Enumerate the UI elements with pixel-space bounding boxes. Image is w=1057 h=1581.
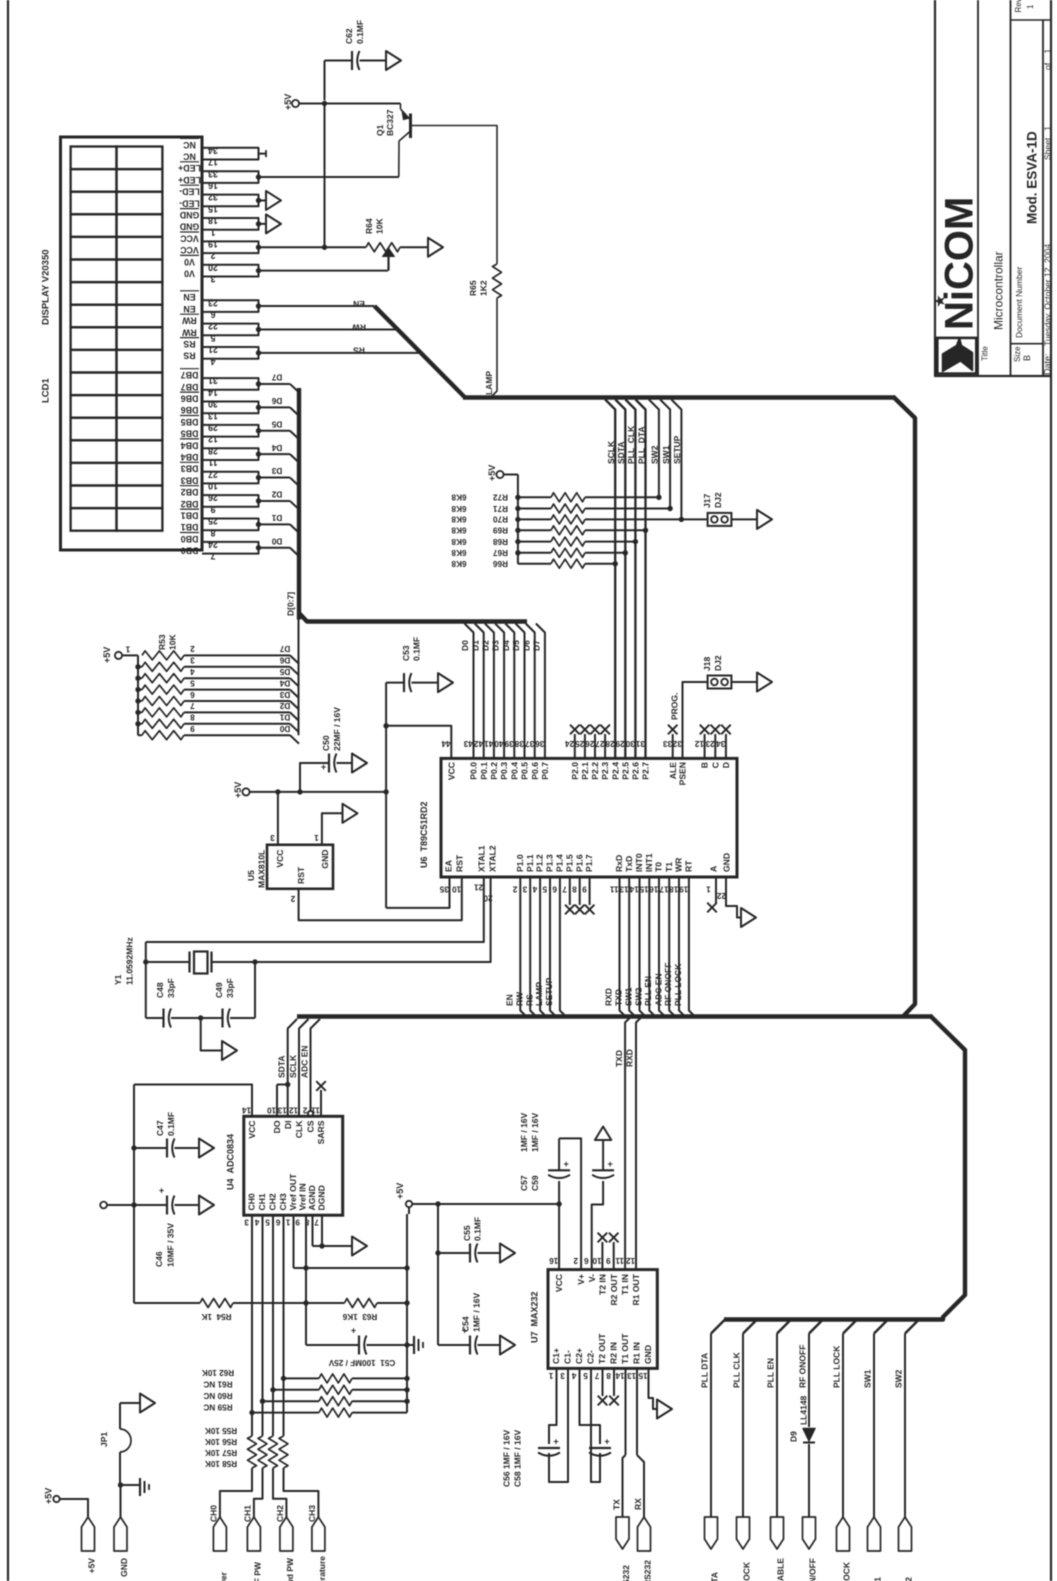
ground arrow U7 GND (657, 1400, 672, 1419)
svg-text:9: 9 (606, 1256, 611, 1265)
svg-text:6: 6 (552, 884, 557, 893)
resistor R64 10K (366, 243, 400, 252)
+5V analog vertical (408, 1207, 410, 1214)
wire C62 branch (325, 60, 353, 62)
svg-text:LED-: LED- (179, 187, 200, 197)
svg-text:SW2: SW2 (650, 445, 660, 464)
svg-text:6K8: 6K8 (451, 493, 466, 502)
capacitor C54 1MF/16V (438, 1344, 470, 1346)
svg-text:Power: Power (219, 1571, 229, 1581)
svg-text:R67: R67 (493, 548, 508, 557)
svg-text:CLK: CLK (294, 1120, 304, 1138)
svg-text:4: 4 (190, 667, 195, 676)
capacitor C46 10MF/35V (134, 1204, 167, 1206)
main signal bus horizontal lower (297, 1014, 932, 1018)
bus D[0:7] horizontal branch (299, 613, 527, 622)
svg-text:6K8: 6K8 (451, 526, 466, 535)
wire C51 to earth (367, 1344, 415, 1346)
svg-text:CH1: CH1 (257, 1193, 267, 1210)
svg-text:D1: D1 (271, 513, 282, 522)
svg-text:16: 16 (549, 1256, 559, 1265)
svg-text:Mod. ESVA-1D: Mod. ESVA-1D (1024, 131, 1039, 224)
wire R63 to +5V rail (377, 1302, 407, 1304)
svg-text:RXD: RXD (625, 1049, 635, 1067)
svg-text:11: 11 (615, 1256, 624, 1265)
svg-text:+5V: +5V (44, 1488, 54, 1504)
wire crystal caps to ground (201, 1018, 222, 1051)
wire U4 VCC to C47 rail (134, 1085, 252, 1117)
svg-text:V0: V0 (184, 257, 195, 267)
resistors R55-R58 10K (248, 1436, 257, 1468)
svg-text:11.0592MHz: 11.0592MHz (125, 937, 135, 985)
svg-text:PLL ENABLE: PLL ENABLE (776, 1558, 786, 1581)
svg-text:WR: WR (674, 857, 684, 872)
crystal Y1 11.0592MHz (145, 942, 147, 1018)
svg-text:RS: RS (524, 994, 534, 1006)
R53 pin 1 wire (122, 654, 138, 656)
svg-text:C1-: C1- (563, 1350, 573, 1364)
U6 B C D no-connect stubs (704, 734, 706, 758)
ground arrow U5 GND (343, 804, 358, 823)
svg-text:Date:: Date: (1043, 353, 1053, 375)
svg-text:R68: R68 (493, 537, 508, 546)
U5 RST pin 2 wire to U6 RST (299, 877, 462, 920)
U6 GND pin 22 wire (726, 877, 741, 918)
svg-text:P2.3: P2.3 (600, 762, 610, 780)
svg-text:6K8: 6K8 (451, 559, 466, 568)
svg-text:9: 9 (295, 1217, 300, 1226)
svg-text:7: 7 (190, 701, 195, 710)
wire R64 to ground (400, 246, 428, 248)
svg-text:26: 26 (585, 739, 595, 748)
svg-text:39: 39 (504, 739, 514, 748)
jumper J18 DJ2 (708, 676, 732, 689)
svg-text:Y1: Y1 (113, 974, 123, 985)
wire +5V to pull-up rail (503, 474, 518, 476)
svg-text:C47: C47 (155, 1120, 165, 1136)
svg-text:R72: R72 (493, 493, 508, 502)
resistor R65 1K2 (493, 264, 502, 298)
svg-text:D0: D0 (460, 640, 470, 651)
svg-text:C46: C46 (154, 1251, 164, 1267)
svg-text:U7 MAX232: U7 MAX232 (530, 1291, 540, 1343)
svg-text:VCC: VCC (275, 850, 285, 868)
svg-text:T1: T1 (664, 862, 674, 872)
svg-text:22: 22 (717, 891, 727, 900)
svg-text:P0.4: P0.4 (509, 762, 519, 780)
svg-text:LED-: LED- (179, 198, 200, 208)
U5 VCC pin 3 wire (277, 792, 279, 845)
wire +5V down to VCC net (324, 104, 326, 248)
ground arrow U6 GND (741, 908, 756, 927)
svg-text:EN: EN (183, 304, 195, 314)
wire net LED+ to Q1 collector (259, 176, 399, 178)
port flag CH0 (213, 1517, 226, 1551)
capacitor C51 100MF/25V (306, 1344, 359, 1346)
U7 T2IN R2OUT no-connect (601, 1242, 603, 1270)
bus D[0:7] thin continuation to R53 taps (298, 620, 300, 736)
wire J17 to ground (731, 518, 757, 520)
svg-text:5: 5 (190, 678, 195, 687)
svg-text:0.1MF: 0.1MF (473, 1217, 483, 1241)
svg-text:DB3: DB3 (181, 464, 199, 474)
svg-text:+5V: +5V (395, 1183, 405, 1199)
svg-text:1MF / 16V: 1MF / 16V (472, 1292, 482, 1332)
wire nets DB7-DB0 into data bus (259, 383, 291, 385)
LCD1 display cell grid (71, 147, 117, 170)
svg-text:SDTA: SDTA (616, 441, 626, 464)
svg-text:Vref IN: Vref IN (298, 1183, 308, 1210)
svg-text:43: 43 (463, 739, 473, 748)
svg-text:P1.6: P1.6 (574, 854, 584, 872)
svg-text:Document Number: Document Number (1014, 266, 1024, 338)
svg-text:9: 9 (210, 504, 215, 514)
wire C50 to ground (337, 762, 353, 764)
svg-text:0.1MF: 0.1MF (412, 637, 422, 661)
power +5V wire to U7 VCC (412, 1203, 559, 1205)
svg-text:Title: Title (980, 346, 989, 361)
resistor R54 1K (134, 1302, 200, 1304)
svg-text:5: 5 (265, 1217, 270, 1226)
svg-text:7: 7 (594, 1371, 599, 1380)
svg-text:14: 14 (242, 1105, 252, 1114)
wire U7 T1 OUT to TX (625, 1368, 627, 1455)
port flag TX (616, 1517, 629, 1549)
svg-text:D3: D3 (491, 640, 501, 651)
svg-text:PLL_CLK: PLL_CLK (626, 425, 636, 464)
svg-text:EA: EA (444, 860, 454, 872)
svg-text:R66: R66 (493, 559, 508, 568)
U4 SARS no-connect (320, 1090, 322, 1116)
svg-text:1: 1 (210, 227, 215, 237)
svg-text:PLL EN: PLL EN (766, 1358, 776, 1388)
svg-text:R58 10K: R58 10K (205, 1459, 237, 1468)
svg-text:33pF: 33pF (166, 978, 176, 998)
svg-text:1K2: 1K2 (479, 280, 489, 296)
wire +5V to Q1 emitter (299, 103, 401, 105)
svg-text:R1 IN: R1 IN (632, 1342, 642, 1364)
svg-text:R69: R69 (493, 526, 508, 535)
svg-text:B: B (700, 762, 710, 768)
svg-text:INT0: INT0 (634, 853, 644, 872)
svg-text:TX: TX (612, 1499, 622, 1510)
svg-text:RW: RW (182, 327, 197, 337)
U6 PSEN wire to J18 (683, 682, 708, 758)
svg-text:C59: C59 (530, 1175, 540, 1191)
svg-text:R61 NC: R61 NC (203, 1380, 232, 1389)
svg-text:+5V: +5V (283, 94, 293, 110)
svg-text:RST: RST (455, 854, 465, 872)
U6 P1.5-P1.7 no-connect (569, 877, 571, 905)
svg-text:SCLK: SCLK (288, 1054, 298, 1078)
svg-text:12: 12 (626, 1256, 636, 1265)
svg-text:DB5: DB5 (181, 429, 199, 439)
svg-text:U5: U5 (246, 870, 256, 881)
svg-text:EN: EN (353, 299, 365, 309)
ground arrow GND (266, 214, 281, 233)
wire C53 to ground (412, 682, 439, 684)
svg-text:Tuesday, October 12, 2004: Tuesday, October 12, 2004 (1043, 244, 1053, 346)
ground arrow C54 (500, 1336, 515, 1355)
NiCOM logo box (937, 338, 976, 374)
U6 EA wire to +5V rail (386, 877, 449, 908)
svg-text:P2.1: P2.1 (580, 762, 590, 780)
svg-text:ALE: ALE (668, 762, 678, 779)
page right border (1050, 0, 1052, 1581)
svg-text:T2 OUT: T2 OUT (597, 1333, 607, 1364)
svg-text:RW: RW (351, 322, 366, 332)
wire XTAL2 to crystal (255, 877, 491, 962)
svg-text:33: 33 (663, 739, 673, 748)
svg-text:of 1: of 1 (1043, 48, 1053, 70)
svg-text:NC: NC (183, 140, 196, 150)
svg-text:12: 12 (694, 739, 704, 748)
svg-text:37: 37 (525, 739, 535, 748)
svg-text:2: 2 (190, 644, 195, 653)
svg-text:1: 1 (314, 833, 319, 842)
svg-text:CH3: CH3 (307, 1505, 317, 1522)
svg-text:6K8: 6K8 (451, 548, 466, 557)
svg-text:1: 1 (125, 644, 130, 653)
diode D9 LL4148 (803, 1429, 815, 1442)
svg-text:4: 4 (254, 1217, 259, 1226)
ground arrow C53 (438, 673, 453, 692)
svg-text:CH1: CH1 (243, 1505, 253, 1522)
svg-text:4: 4 (210, 356, 215, 366)
U6 P0 pin stubs to data bus (465, 624, 474, 759)
svg-text:RT: RT (683, 860, 693, 872)
ic U5 MAX810L box (267, 845, 333, 889)
svg-text:+: + (607, 1159, 612, 1169)
svg-text:P0.3: P0.3 (499, 762, 509, 780)
ground arrow C62 (386, 51, 401, 70)
svg-text:CH2: CH2 (268, 1193, 278, 1210)
svg-text:SW1: SW1 (624, 987, 634, 1006)
svg-text:TXD: TXD (613, 989, 623, 1006)
U5 GND pin 1 wire (322, 813, 343, 845)
NiCOM logo mark (943, 338, 973, 372)
svg-text:44: 44 (441, 739, 451, 748)
svg-text:DB6: DB6 (181, 394, 199, 404)
svg-text:DB2: DB2 (181, 487, 199, 497)
wire U4 AGND DGND to ground (312, 1215, 314, 1246)
R53 common rail (137, 655, 139, 735)
svg-text:+: + (159, 1186, 164, 1196)
svg-text:SETUP: SETUP (672, 435, 682, 464)
svg-text:+: + (604, 1437, 609, 1447)
wire JP1 bottom to earth (119, 1452, 121, 1485)
power +5V symbol (R53) (115, 652, 122, 659)
svg-text:P1.7: P1.7 (584, 854, 594, 872)
wire +5V to 5V flag (60, 1499, 88, 1517)
earth ground symbol (JP1) (139, 1478, 141, 1496)
capacitor C57 1MF/16V (558, 1181, 560, 1204)
svg-text:14: 14 (629, 884, 639, 893)
svg-text:NC: NC (183, 152, 196, 162)
svg-text:Temperature: Temperature (317, 1556, 327, 1581)
svg-text:C58 1MF / 16V: C58 1MF / 16V (513, 1430, 523, 1487)
wires RXD TXD SW1 SW2 PLL_EN ADC_EN RF_ONOFF PLL_LOCK to bus (620, 877, 626, 1017)
svg-text:D3: D3 (271, 466, 282, 475)
ground arrow C50 (352, 754, 367, 773)
svg-text:7: 7 (210, 551, 215, 561)
svg-text:5: 5 (542, 884, 547, 893)
capacitor C62 (351, 51, 353, 70)
svg-text:J17: J17 (702, 494, 712, 508)
svg-text:GND: GND (119, 1558, 129, 1577)
power +5V symbol (LCD VCC rail) (292, 100, 299, 107)
svg-text:EN: EN (504, 994, 514, 1006)
wire SETUP from bus to J17 (671, 400, 681, 520)
svg-text:DB0: DB0 (181, 546, 199, 556)
svg-text:1: 1 (706, 884, 711, 893)
svg-text:D1: D1 (470, 640, 480, 651)
main signal bus right vertical upper (893, 397, 915, 1017)
svg-text:DB5: DB5 (181, 417, 199, 427)
svg-text:DB7: DB7 (181, 370, 199, 380)
port flags PLL/SW (705, 1517, 718, 1549)
svg-text:C62: C62 (344, 28, 354, 44)
svg-text:3: 3 (244, 1217, 249, 1226)
svg-text:15: 15 (638, 1371, 648, 1380)
svg-text:CH3: CH3 (278, 1193, 288, 1210)
svg-text:EN: EN (183, 292, 195, 302)
svg-text:1: 1 (285, 1217, 290, 1226)
svg-text:RF ONOFF: RF ONOFF (798, 1345, 808, 1388)
svg-text:3: 3 (190, 656, 195, 665)
svg-text:5: 5 (210, 333, 215, 343)
svg-text:C: C (710, 762, 720, 768)
svg-text:P0.0: P0.0 (469, 762, 479, 780)
svg-text:C55: C55 (462, 1225, 472, 1241)
svg-text:29: 29 (615, 739, 625, 748)
svg-text:Fwd PW: Fwd PW (285, 1557, 295, 1581)
svg-text:INT1: INT1 (644, 853, 654, 872)
svg-text:10MF / 35V: 10MF / 35V (166, 1223, 176, 1267)
svg-text:D5: D5 (279, 667, 290, 676)
svg-text:9: 9 (582, 884, 587, 893)
svg-text:2: 2 (573, 1256, 578, 1265)
wire net NC stub (259, 153, 267, 155)
svg-text:D4: D4 (271, 443, 282, 452)
svg-text:P0.2: P0.2 (489, 762, 499, 780)
svg-text:Microcontrollar: Microcontrollar (991, 251, 1005, 330)
svg-text:6: 6 (210, 310, 215, 320)
svg-text:+: + (553, 1437, 558, 1447)
input terminal circle (100, 1202, 107, 1209)
svg-text:PSEN: PSEN (678, 762, 688, 785)
capacitor C58 1MF/16V loop (580, 1368, 601, 1444)
svg-text:RW: RW (514, 991, 524, 1006)
svg-text:RxD: RxD (614, 855, 624, 872)
wires EN RW RS LAMP SETUP from U6 P1.0-P1.4 to bus (520, 877, 526, 1017)
svg-text:PLL EN: PLL EN (643, 976, 653, 1006)
svg-text:6: 6 (584, 1256, 589, 1265)
svg-text:DB2: DB2 (181, 499, 199, 509)
svg-text:VCC: VCC (446, 762, 456, 780)
svg-text:GND: GND (320, 850, 330, 869)
svg-text:8: 8 (210, 528, 215, 538)
svg-text:SARS: SARS (316, 1120, 326, 1144)
svg-text:DGND: DGND (317, 1185, 327, 1210)
svg-text:LCD1: LCD1 (40, 377, 51, 403)
svg-text:C2+: C2+ (574, 1348, 584, 1364)
wires SCLK SDTA PLL_CLK PLL_DTA from bus to U6 P2.4-P2.7 (605, 400, 615, 759)
wire R65 to LAMP bus entry (491, 298, 497, 397)
power +5V symbol (bottom connector) (53, 1496, 59, 1502)
ground arrow R64 (428, 238, 443, 257)
wire RXD from bus to U7 R1 OUT (636, 1017, 642, 1270)
svg-text:R64: R64 (364, 218, 374, 234)
wires PLL/SW signals from bus (711, 1320, 725, 1334)
ground arrow JP1 (140, 1394, 155, 1413)
ground arrow C47 (199, 1139, 214, 1158)
svg-text:PLL DTA: PLL DTA (700, 1353, 710, 1388)
svg-text:C1+: C1+ (551, 1348, 561, 1364)
svg-text:C57: C57 (519, 1175, 529, 1191)
svg-text:34: 34 (716, 739, 726, 748)
svg-text:LED+: LED+ (178, 163, 201, 173)
svg-text:PROG.: PROG. (670, 693, 680, 720)
wire U7 V- pin 6 (592, 1181, 603, 1270)
svg-text:8: 8 (572, 884, 577, 893)
svg-text:D6: D6 (279, 656, 290, 665)
svg-text:VCC: VCC (180, 233, 199, 243)
svg-text:DB1: DB1 (181, 511, 199, 521)
svg-text:LAMP: LAMP (534, 982, 544, 1006)
capacitor C50 22MF/16V (300, 763, 329, 792)
svg-text:F PW: F PW (253, 1561, 263, 1581)
wire U4 DO tie to SDTA (276, 1085, 278, 1117)
svg-text:4: 4 (571, 1371, 576, 1380)
jumper J17 DJ2 (681, 518, 707, 520)
svg-text:7: 7 (562, 884, 567, 893)
resistor R63 1K6 (345, 1299, 378, 1308)
svg-text:R53: R53 (157, 634, 167, 650)
port flag RX (638, 1517, 651, 1551)
svg-text:T1 IN: T1 IN (620, 1274, 630, 1295)
capacitor C47 0.1MF (134, 1147, 167, 1149)
svg-text:35: 35 (439, 884, 449, 893)
svg-text:DISPLAY V20350: DISPLAY V20350 (40, 249, 51, 325)
svg-text:V-: V- (587, 1274, 597, 1282)
svg-text:8: 8 (606, 1371, 611, 1380)
svg-text:LED+: LED+ (178, 175, 201, 185)
svg-text:PLL LOCK: PLL LOCK (832, 1345, 842, 1388)
svg-text:P0.5: P0.5 (520, 762, 530, 780)
LCD1 connector box (61, 137, 203, 550)
svg-text:CH0: CH0 (247, 1193, 257, 1210)
U4 CS inversion bubble (308, 1111, 313, 1116)
bus D[0:7] vertical (297, 388, 301, 620)
wire net VCC to R64 (259, 246, 367, 248)
svg-text:11: 11 (610, 884, 619, 893)
port flag GND (114, 1517, 127, 1551)
svg-text:Sheet 1: Sheet 1 (1043, 126, 1053, 160)
LCD1 pin-pair bracket wires (216, 148, 259, 160)
wire C47 to ground (175, 1147, 200, 1149)
svg-text:R55 10K: R55 10K (205, 1426, 237, 1435)
svg-text:23: 23 (705, 739, 715, 748)
resistor network R53 elements, pins 2-9, nets D7-D0 (142, 651, 184, 660)
svg-text:P0.6: P0.6 (530, 762, 540, 780)
svg-text:D7: D7 (271, 373, 282, 382)
svg-text:P1.3: P1.3 (545, 854, 555, 872)
svg-text:21: 21 (474, 882, 484, 891)
svg-text:15: 15 (639, 884, 649, 893)
svg-text:SW1: SW1 (873, 1577, 883, 1581)
svg-text:9: 9 (190, 724, 195, 733)
